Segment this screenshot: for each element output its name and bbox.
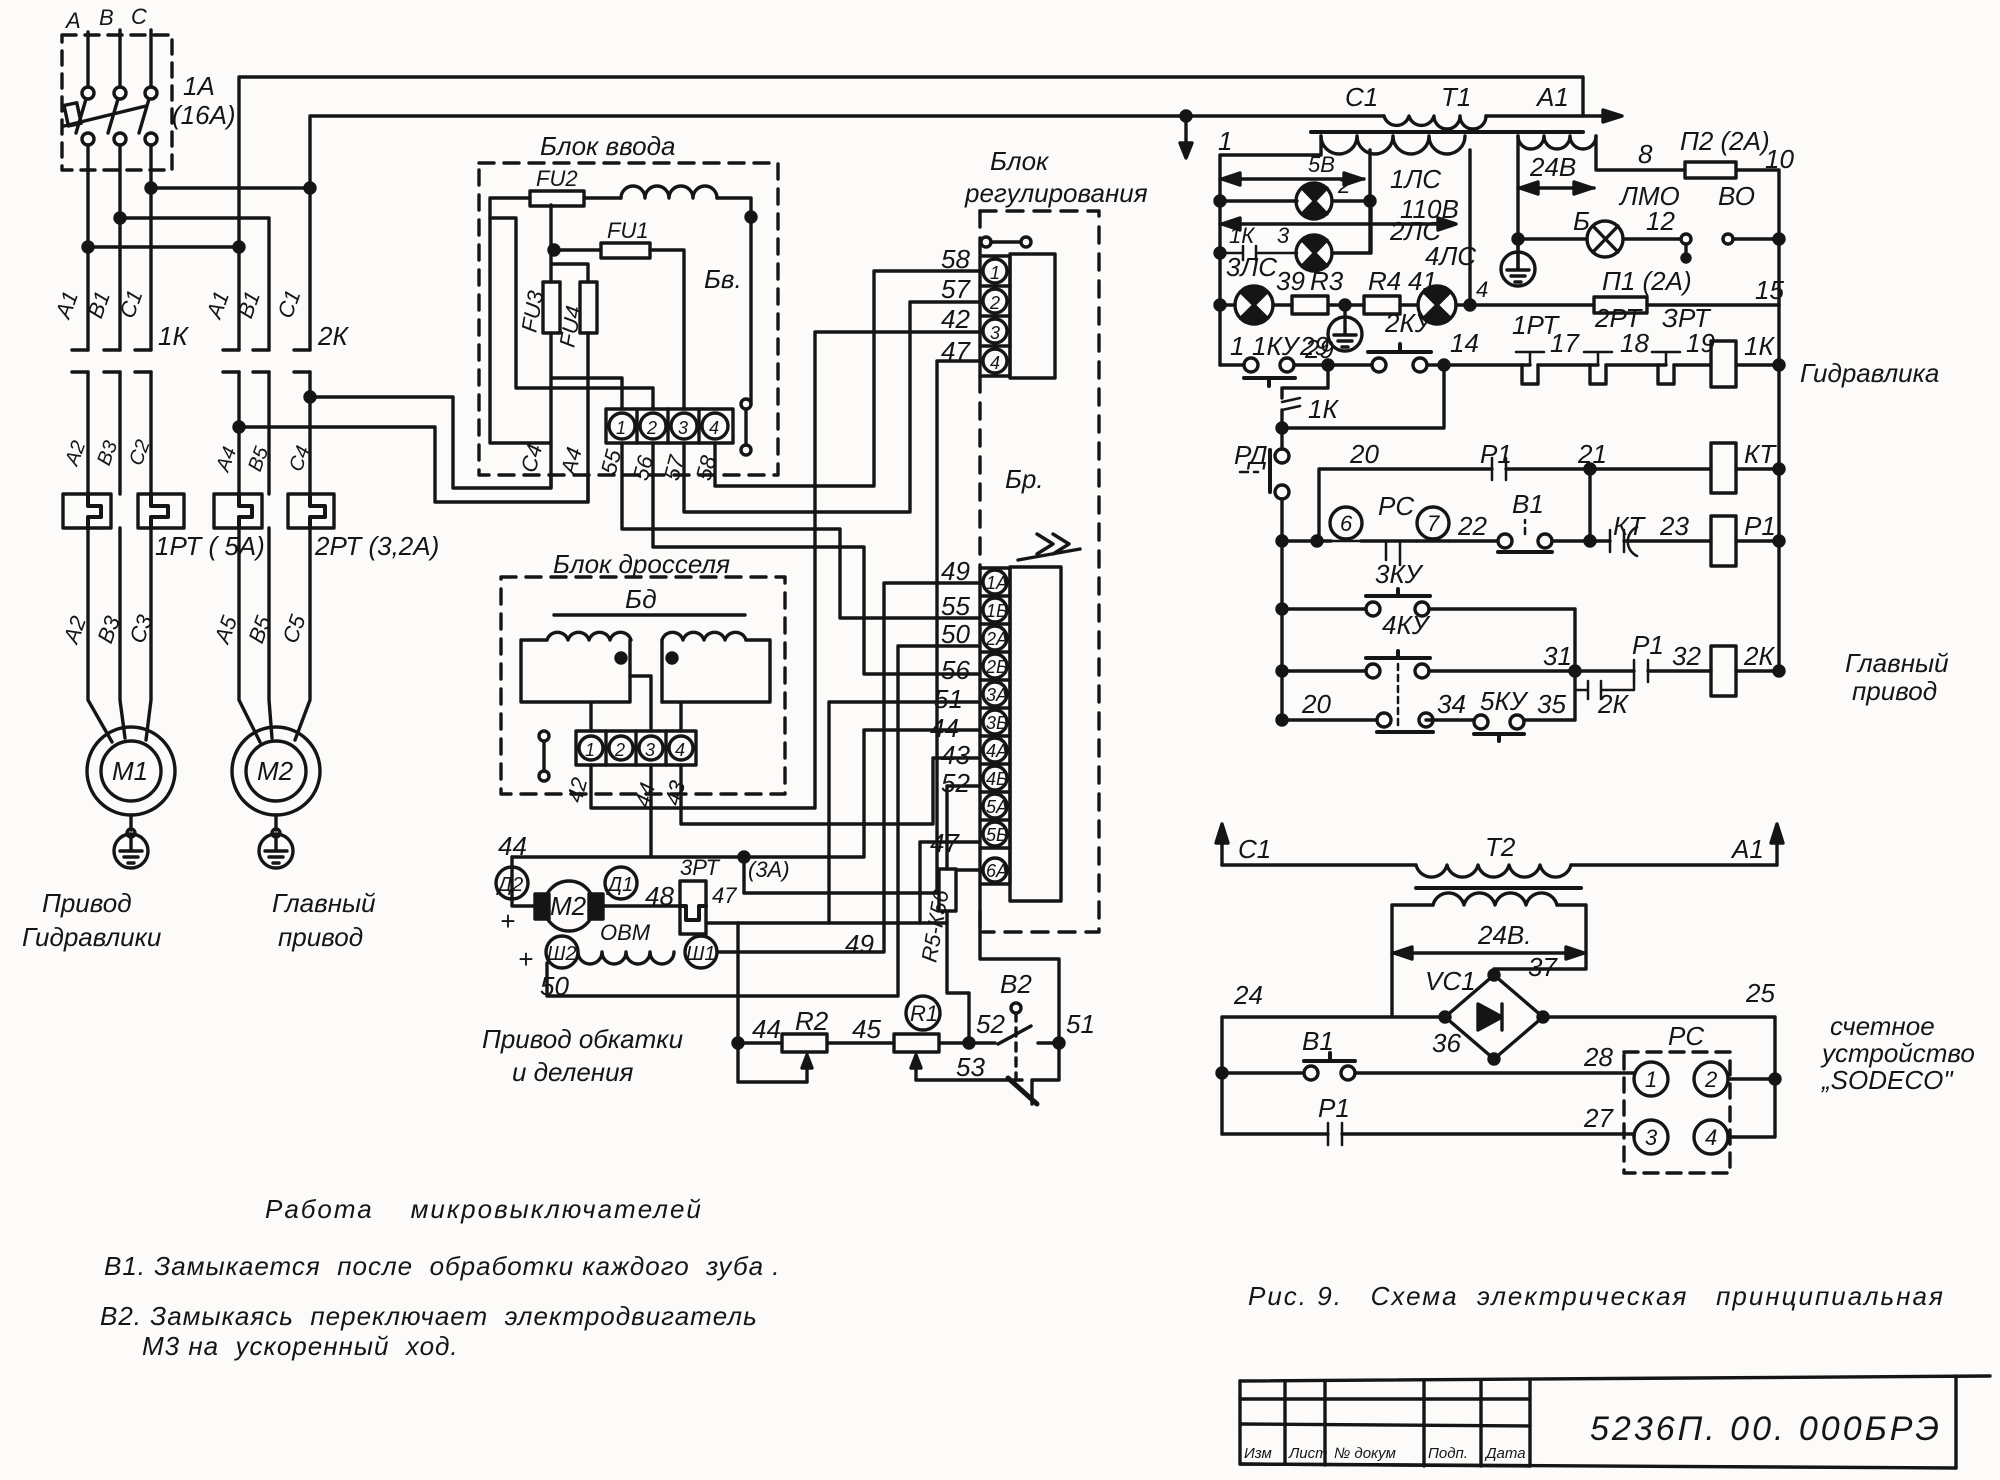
svg-text:37: 37 (1528, 952, 1558, 982)
svg-text:53: 53 (956, 1052, 985, 1082)
wire 44 to R2 (738, 1041, 782, 1044)
svg-text:5236П. 00. 000БРЭ: 5236П. 00. 000БРЭ (1590, 1410, 1942, 1448)
terminal 1 (609, 413, 635, 439)
title block outline (1240, 1376, 1990, 1381)
contact 1RT (1516, 352, 1544, 365)
svg-text:Бд: Бд (625, 584, 657, 614)
svg-text:В: В (99, 5, 114, 30)
svg-text:58: 58 (941, 244, 970, 274)
wire V1 to node21b (1552, 539, 1610, 542)
svg-text:Блок дросселя: Блок дросселя (553, 549, 730, 579)
svg-text:3: 3 (990, 323, 1000, 343)
contact 2RT (1584, 352, 1612, 365)
svg-text:47: 47 (712, 883, 737, 908)
wire R2 to R1 (45) (827, 1041, 894, 1044)
24V measuring arrows (1392, 951, 1586, 954)
coil KT (1711, 443, 1736, 493)
wire 49 (Sh1 to Br:1A) (718, 583, 980, 952)
counter terminal 2 (1694, 1062, 1728, 1096)
wire A to 2K column and top rail (88, 245, 239, 248)
svg-text:+: + (518, 944, 533, 974)
wire coil 1K to rail (1736, 363, 1779, 366)
svg-text:М2: М2 (257, 756, 294, 786)
wire counter2 to rail (1728, 1077, 1775, 1080)
svg-text:2: 2 (614, 740, 625, 760)
wire 6A terminal to R5-K56 (956, 868, 980, 871)
svg-text:Дата: Дата (1484, 1445, 1526, 1462)
choke L2 winding (662, 632, 746, 640)
wire 4 to 15 (1470, 303, 1594, 306)
svg-text:Рис. 9. Схема электрическая: Рис. 9. Схема электрическая принципиальн… (1248, 1281, 1945, 1311)
svg-text:привод: привод (1852, 676, 1937, 706)
svg-text:1К: 1К (1308, 394, 1339, 424)
svg-text:(3А): (3А) (748, 857, 790, 882)
terminal D2 (496, 867, 528, 899)
node 29 ground junction (1328, 303, 1364, 306)
rheostat R1 (894, 1034, 939, 1052)
node rail row4 (1774, 666, 1784, 676)
resistor R4 (1364, 296, 1400, 314)
node row2 junction (1585, 536, 1595, 546)
svg-text:Гидравлика: Гидравлика (1800, 358, 1939, 388)
wire rail C1 (to T1 left) (310, 116, 1384, 188)
wire KT coil to rail (1736, 467, 1779, 470)
wire armature to 3RT (603, 904, 680, 907)
node 5V tap lamp (1365, 196, 1375, 206)
svg-text:36: 36 (1432, 1028, 1461, 1058)
node row2 a (1312, 536, 1322, 546)
switch V2 dashed stem (1014, 1013, 1017, 1080)
svg-text:Ш1: Ш1 (686, 943, 716, 965)
1K self-hold branch (1282, 365, 1328, 398)
node FU1 left (549, 245, 559, 255)
svg-text:Р1: Р1 (1480, 439, 1512, 469)
wire terminal1 internal lead (551, 378, 622, 409)
svg-text:А1: А1 (1730, 834, 1764, 864)
signal lamp 1LS (2) (1220, 199, 1297, 202)
svg-text:КТ: КТ (1744, 439, 1777, 469)
pushbutton 14 (stop) (1372, 358, 1386, 372)
svg-text:(16А): (16А) (172, 100, 236, 130)
wire 51 (Br:3A left stub) (829, 702, 980, 923)
choke Bv winding (621, 186, 717, 198)
node C4 junction on 2K phase C (305, 392, 315, 402)
contact 3RT (1652, 352, 1680, 365)
svg-text:1: 1 (1230, 331, 1244, 361)
wire P1 to rail (1647, 303, 1779, 306)
svg-text:2: 2 (646, 418, 657, 438)
input block terminal strip (606, 409, 733, 443)
svg-text:1: 1 (1218, 126, 1232, 156)
switch 1A dashed enclosure (62, 35, 172, 170)
switch 1A pole A terminals (82, 87, 94, 99)
wire secondary terminal 1 to left rail (1220, 136, 1321, 365)
pushbutton 34 (1282, 718, 1377, 721)
svg-text:1КУ: 1КУ (1252, 331, 1301, 361)
wire 24V right leg to P2 (1596, 136, 1685, 170)
svg-text:27: 27 (1583, 1103, 1614, 1133)
node row2 left (1277, 536, 1287, 546)
svg-text:48: 48 (645, 881, 674, 911)
counter RS coil 6 (1330, 507, 1362, 539)
svg-text:4: 4 (709, 418, 719, 438)
node row4 (1277, 666, 1287, 676)
svg-text:3РТ: 3РТ (680, 855, 721, 880)
T1 secondary winding group 1 (1321, 136, 1465, 154)
svg-text:Д1: Д1 (606, 874, 633, 896)
110V measuring arrows (1220, 222, 1454, 225)
Br terminal strip 1 (980, 256, 1010, 376)
RS actuator stubs (1386, 541, 1400, 565)
wire A1 with arrow (1486, 114, 1610, 117)
pushbutton 5KU (1474, 715, 1488, 729)
contact 2K selfhold (1575, 681, 1634, 699)
T2 secondary left lead (1392, 905, 1433, 1015)
Br terminal 1B (983, 598, 1007, 622)
thermal relay 3RT heater (680, 881, 706, 934)
ground 29 (1343, 305, 1346, 317)
svg-text:4КУ: 4КУ (1382, 610, 1431, 640)
wire 58 (Bv:4 to Br:1) (715, 271, 980, 486)
choke L2 dot (667, 653, 677, 663)
wires to motor M1 (88, 528, 112, 742)
wire 2K column A down (237, 247, 240, 350)
wire choke to right vertical (717, 198, 751, 404)
svg-text:М2: М2 (550, 891, 587, 921)
svg-text:28: 28 (1583, 1042, 1613, 1072)
arrow to T2 C1 (1184, 116, 1187, 148)
node 21 (1585, 464, 1595, 474)
wire VC1 right to rail (1543, 1017, 1775, 1079)
wire 44 (Bd:3 to 44-line to Br:3B) (512, 730, 980, 857)
terminal Sh2 (546, 936, 578, 968)
svg-text:ОВМ: ОВМ (600, 920, 651, 945)
svg-text:Бр.: Бр. (1005, 464, 1044, 494)
terminal 4 (702, 413, 728, 439)
svg-text:4: 4 (1476, 277, 1488, 302)
wire left rail down (1280, 541, 1283, 720)
connector 12 (1681, 234, 1691, 244)
phase C input stub (149, 30, 152, 87)
svg-text:2К: 2К (317, 321, 349, 351)
wire 44 trunk down (736, 923, 739, 1082)
wire node44 down to 47 node (742, 857, 745, 893)
counter terminal 1 (1634, 1062, 1668, 1096)
rectifier VC1 diamond (1445, 975, 1543, 1059)
switch 1A pole B terminals (114, 87, 126, 99)
wire P2 to right rail (1736, 170, 1779, 305)
wire B to 2K column (120, 218, 269, 350)
svg-text:Привод обкатки: Привод обкатки (482, 1024, 683, 1054)
svg-text:8: 8 (1638, 139, 1653, 169)
svg-text:Ш2: Ш2 (547, 943, 577, 965)
wire 5V tap (1368, 150, 1371, 253)
svg-text:Гидравлики: Гидравлики (22, 922, 161, 952)
fuse P1 (1594, 297, 1647, 313)
svg-text:Д2: Д2 (496, 874, 523, 896)
svg-text:4А: 4А (986, 741, 1008, 761)
wire 42 (Bd:1 to Br:3) (591, 332, 980, 808)
Bd jumper link (539, 731, 549, 741)
svg-text:R1: R1 (910, 1001, 938, 1026)
wires to motor M2 (239, 528, 260, 742)
wire C4 to input block (310, 397, 551, 488)
ground M1 (129, 815, 132, 830)
svg-text:С: С (131, 4, 147, 29)
T2 secondary winding (1433, 893, 1557, 905)
svg-text:2А: 2А (985, 629, 1008, 649)
svg-text:Главный: Главный (1845, 648, 1949, 678)
terminal D1 (605, 867, 637, 899)
svg-text:1: 1 (585, 740, 595, 760)
svg-text:6: 6 (1340, 511, 1353, 536)
svg-text:2: 2 (1704, 1067, 1717, 1092)
svg-text:49: 49 (845, 929, 874, 959)
1K contact in lamp2 row (1220, 246, 1297, 260)
wire C1 arrow up (1220, 832, 1223, 865)
wire 56 (Bv:2 to Br:2B) (653, 443, 980, 674)
jumper link with two terminals (741, 399, 751, 409)
svg-text:Бв.: Бв. (704, 264, 742, 294)
Br terminal 1 (983, 259, 1007, 283)
R2 wiper arrow (805, 1058, 808, 1082)
svg-text:Изм: Изм (1244, 1445, 1272, 1462)
contact KT delayed (1610, 530, 1624, 552)
wire R1 to node 52 (939, 1041, 995, 1044)
svg-text:А1: А1 (1535, 82, 1569, 112)
counter terminal 3 (1634, 1120, 1668, 1154)
wire phase B down from switch (118, 145, 121, 350)
node lamp B junction (1513, 234, 1523, 244)
choke block dashed box (501, 577, 785, 794)
Br terminal 4B (983, 766, 1007, 790)
svg-text:44: 44 (752, 1014, 781, 1044)
wire row2 (1282, 539, 1331, 542)
fuse P2 (1685, 162, 1736, 178)
wire row1 left (1319, 469, 1492, 541)
svg-text:6А: 6А (986, 861, 1008, 881)
svg-text:45: 45 (852, 1014, 881, 1044)
node rail KT (1774, 464, 1784, 474)
svg-text:3: 3 (1277, 223, 1290, 248)
arrow marker >> (1018, 534, 1080, 560)
wire VC1 left to rail (1222, 1017, 1445, 1134)
wire P1 row (1222, 1132, 1328, 1135)
Br terminal 2 (983, 289, 1007, 313)
svg-text:Работа микровыключателей: Работа микровыключателей (265, 1194, 703, 1224)
wire V2 to node 51 (1038, 1041, 1059, 1044)
svg-text:устройство: устройство (1820, 1038, 1975, 1068)
svg-text:и деления: и деления (512, 1057, 634, 1087)
contact 1K chevron (1282, 398, 1300, 410)
Bd terminal 3 (639, 736, 663, 760)
switch 1A pole C terminals (145, 87, 157, 99)
resistor R3 (1273, 303, 1292, 306)
choke L1 frame (521, 640, 630, 731)
Br terminal 5A (983, 794, 1007, 818)
phase A input stub (86, 32, 89, 87)
svg-text:ВО: ВО (1718, 181, 1755, 211)
wire to V1 (1449, 539, 1498, 542)
svg-text:22: 22 (1457, 511, 1487, 541)
svg-text:24В: 24В (1529, 152, 1576, 182)
Bd terminal 4 (669, 736, 693, 760)
svg-text:Подп.: Подп. (1428, 1445, 1468, 1462)
wire FU4 top lead (551, 264, 588, 282)
signal lamp 2LS (3) (1296, 235, 1332, 271)
svg-text:3А: 3А (986, 685, 1008, 705)
wire top rail A1 (to T1 right) (239, 77, 1583, 247)
svg-text:14: 14 (1450, 328, 1479, 358)
coil P1 (1711, 516, 1736, 566)
svg-text:А: А (64, 8, 81, 33)
svg-text:М1: М1 (112, 756, 148, 786)
motor M1 (87, 727, 175, 815)
svg-text:5КУ: 5КУ (1480, 686, 1529, 716)
wire bypass to node14 (1282, 365, 1444, 428)
node rail row1 (1774, 360, 1784, 370)
svg-text:23: 23 (1659, 511, 1689, 541)
svg-text:56: 56 (941, 655, 970, 685)
choke L2 frame (662, 640, 770, 731)
svg-text:49: 49 (941, 556, 970, 586)
svg-text:В2. Замыкаясь переключает эл: В2. Замыкаясь переключает электродвигате… (100, 1301, 758, 1331)
wire 47 (Br:4 to 3RT) (744, 361, 980, 893)
thermal relay 2RT heater A (214, 494, 262, 528)
svg-text:55: 55 (941, 591, 970, 621)
svg-text:4: 4 (675, 740, 685, 760)
contact RD (1280, 428, 1283, 449)
switch V2 terminal (1011, 1003, 1021, 1013)
svg-text:П2 (2А): П2 (2А) (1680, 126, 1770, 156)
contactor 1K contacts (3 poles) (72, 350, 88, 372)
svg-text:3: 3 (645, 740, 655, 760)
node A1 junction (83, 242, 93, 252)
svg-text:П1 (2А): П1 (2А) (1602, 266, 1692, 296)
Bd terminal 2 (609, 736, 633, 760)
counter RS dashed box (1624, 1052, 1730, 1173)
svg-text:Р1: Р1 (1744, 511, 1776, 541)
svg-text:2К: 2К (1597, 689, 1629, 719)
node rail row2 (1774, 536, 1784, 546)
input block dashed box (479, 163, 778, 475)
Br terminal 3B (983, 710, 1007, 734)
wire FU1 left lead (554, 248, 601, 251)
svg-text:5В: 5В (1308, 152, 1335, 177)
wire 50 (Sh2 to Br:2A) (547, 646, 980, 996)
svg-text:1К: 1К (1744, 331, 1775, 361)
wire 21 down (1588, 469, 1591, 541)
svg-text:Блок: Блок (990, 146, 1050, 176)
node rail lamp3 (1215, 300, 1225, 310)
wire FU1 right lead down to terminal 3 (650, 250, 684, 409)
svg-text:РС: РС (1668, 1021, 1704, 1051)
switch 1A blade A (76, 99, 86, 133)
Br terminal 2A (983, 626, 1007, 650)
pushbutton V1 T2 (1222, 1071, 1304, 1074)
svg-text:„SODECO": „SODECO" (1821, 1065, 1954, 1095)
svg-text:М3 на ускоренный ход.: М3 на ускоренный ход. (142, 1331, 459, 1361)
lamp LMO (B) (1518, 237, 1587, 240)
svg-text:3Б: 3Б (986, 713, 1008, 733)
wire 24V left leg (1516, 136, 1519, 268)
svg-text:РД: РД (1234, 440, 1268, 470)
svg-text:4Б: 4Б (986, 769, 1008, 789)
svg-text:Лист: Лист (1288, 1445, 1328, 1462)
5V measuring arrows (1220, 177, 1364, 180)
svg-text:51: 51 (934, 684, 963, 714)
svg-text:2К: 2К (1743, 641, 1775, 671)
svg-text:7: 7 (1427, 511, 1440, 536)
24V measuring arrows (1518, 186, 1594, 189)
Br terminal 1A (983, 570, 1007, 594)
pushbutton 3KU (1282, 607, 1366, 610)
svg-text:счетное: счетное (1830, 1011, 1935, 1041)
Br terminal 4 (983, 349, 1007, 373)
node 51 (1054, 1038, 1064, 1048)
wire R5-K56 bottom to node 52 (947, 911, 969, 1043)
svg-text:Р1: Р1 (1632, 630, 1664, 660)
svg-text:+: + (500, 906, 515, 936)
svg-text:57: 57 (941, 274, 971, 304)
svg-text:15: 15 (1755, 275, 1784, 305)
wire 53 from R1 wiper (916, 1078, 1022, 1081)
coil 1K (1711, 341, 1736, 387)
svg-text:34: 34 (1437, 689, 1466, 719)
svg-text:2: 2 (989, 293, 1000, 313)
svg-text:Главный: Главный (272, 888, 376, 918)
svg-text:42: 42 (941, 304, 970, 334)
svg-text:47: 47 (930, 828, 960, 858)
fuse FU4 (580, 282, 597, 333)
svg-text:FU2: FU2 (536, 166, 578, 191)
coil 2K (1711, 646, 1736, 696)
svg-text:12: 12 (1646, 206, 1675, 236)
choke L1 winding (547, 632, 631, 640)
T2 core (1416, 886, 1581, 890)
svg-text:4: 4 (1705, 1125, 1717, 1150)
pushbutton V1 (1498, 534, 1512, 548)
svg-text:КТ: КТ (1613, 511, 1646, 541)
VC1 diode symbol (1478, 1004, 1502, 1030)
Br inner rect 2 (1010, 567, 1061, 901)
svg-text:1А: 1А (986, 573, 1008, 593)
node 4 (1465, 300, 1475, 310)
svg-text:5А: 5А (986, 797, 1008, 817)
node 44 row (733, 1038, 743, 1048)
svg-text:52: 52 (976, 1009, 1005, 1039)
wire 44 left end down to M2 (512, 857, 535, 906)
wire 110V tap down (1468, 150, 1471, 305)
fuse FU2 (530, 191, 584, 206)
wire phase A down from switch (86, 145, 89, 350)
node row3 (1277, 604, 1287, 614)
svg-text:50: 50 (941, 619, 970, 649)
thermal relay 2RT heater C (288, 494, 334, 528)
counter terminal 4 (1694, 1120, 1728, 1154)
choke L1 dot (616, 653, 626, 663)
terminal Sh1 (685, 936, 717, 968)
svg-text:3КУ: 3КУ (1375, 559, 1424, 589)
svg-text:1: 1 (1645, 1067, 1657, 1092)
wire FU2 left lead (490, 198, 551, 443)
node V1 row (1217, 1068, 1227, 1078)
switch 1A handle box (64, 103, 81, 126)
node VO rail (1774, 234, 1784, 244)
svg-text:РС: РС (1378, 491, 1414, 521)
svg-text:4: 4 (990, 353, 1000, 373)
svg-text:В1: В1 (1512, 489, 1544, 519)
